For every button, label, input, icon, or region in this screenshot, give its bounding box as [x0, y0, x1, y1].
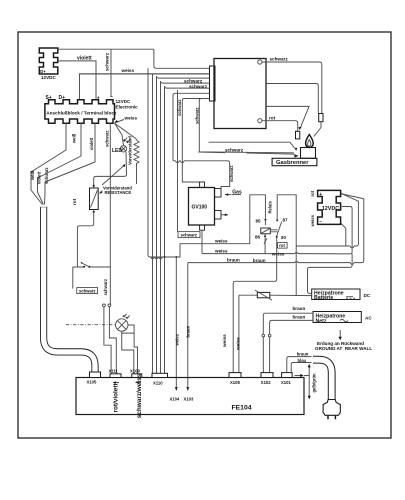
svg-text:RESISTANCE: RESISTANCE — [105, 190, 132, 195]
svg-text:FE104: FE104 — [232, 405, 252, 412]
svg-text:X109: X109 — [130, 369, 140, 374]
svg-text:rot: rot — [310, 190, 315, 196]
svg-text:weiss: weiss — [214, 239, 228, 244]
svg-text:rot: rot — [279, 243, 285, 248]
svg-text:12VDC: 12VDC — [116, 99, 131, 104]
svg-text:violett: violett — [89, 137, 94, 150]
svg-text:–: – — [110, 95, 113, 101]
svg-text:12VDC: 12VDC — [41, 75, 56, 80]
svg-text:rot: rot — [72, 198, 77, 205]
svg-text:schwarz: schwarz — [105, 52, 110, 71]
svg-text:S+: S+ — [46, 95, 52, 101]
svg-text:weiss: weiss — [124, 116, 138, 121]
svg-text:Batterie: Batterie — [314, 295, 333, 301]
svg-text:D+: D+ — [59, 95, 66, 101]
svg-text:weiss: weiss — [236, 337, 241, 351]
svg-text:schwarz: schwarz — [105, 130, 110, 147]
svg-text:85: 85 — [256, 219, 262, 224]
svg-text:X110: X110 — [153, 381, 163, 386]
svg-text:schwarz: schwarz — [44, 167, 49, 184]
svg-text:X101: X101 — [281, 380, 291, 385]
svg-text:X104: X104 — [170, 397, 180, 402]
svg-text:schwarz: schwarz — [270, 57, 289, 62]
svg-text:X102: X102 — [261, 380, 271, 385]
svg-text:–: – — [319, 219, 322, 225]
svg-text:87: 87 — [283, 218, 289, 223]
svg-text:X105: X105 — [87, 380, 97, 385]
svg-text:X108: X108 — [230, 380, 240, 385]
svg-text:Netz: Netz — [316, 318, 327, 324]
svg-text:Electronic: Electronic — [116, 105, 139, 110]
svg-text:schwarz: schwarz — [195, 107, 200, 124]
svg-text:braun: braun — [293, 306, 306, 311]
svg-text:+: + — [319, 192, 322, 198]
svg-text:GROUND AT REAR WALL: GROUND AT REAR WALL — [315, 346, 372, 351]
svg-text:schwarz: schwarz — [189, 84, 208, 89]
svg-text:schwarz: schwarz — [181, 233, 198, 238]
svg-text:braun: braun — [297, 352, 309, 357]
svg-text:Gasbrenner: Gasbrenner — [276, 160, 309, 166]
svg-text:violett: violett — [37, 171, 42, 184]
svg-text:rot/violett: rot/violett — [113, 383, 120, 413]
svg-text:weiss: weiss — [214, 249, 228, 254]
svg-text:weiss: weiss — [310, 214, 315, 227]
svg-text:X103: X103 — [184, 397, 194, 402]
svg-text:GV100: GV100 — [192, 205, 208, 211]
svg-text:weiß: weiß — [30, 170, 35, 181]
svg-text:AC: AC — [365, 315, 372, 320]
svg-text:D+: D+ — [40, 69, 46, 74]
svg-text:Vorwiderstand: Vorwiderstand — [128, 136, 133, 165]
svg-text:weiß: weiß — [72, 133, 77, 144]
svg-text:schwarz: schwarz — [103, 279, 108, 296]
svg-text:DC: DC — [364, 293, 371, 298]
svg-text:Relais: Relais — [268, 200, 273, 213]
svg-text:LED: LED — [112, 148, 122, 154]
svg-text:+: + — [97, 95, 100, 101]
svg-text:braun: braun — [227, 258, 240, 263]
svg-text:Anschlußblock / Terminal block: Anschlußblock / Terminal block — [46, 110, 117, 115]
svg-text:86: 86 — [255, 235, 261, 240]
svg-text:weiss: weiss — [175, 333, 180, 346]
svg-text:braun: braun — [293, 314, 306, 319]
svg-text:weiss: weiss — [222, 334, 227, 348]
svg-text:gelb/grün: gelb/grün — [312, 373, 317, 393]
svg-text:rot: rot — [269, 115, 276, 120]
svg-text:weiss: weiss — [271, 252, 285, 257]
svg-text:schwarz: schwarz — [225, 147, 244, 152]
svg-text:weiss: weiss — [121, 68, 135, 73]
svg-text:12VDC: 12VDC — [322, 206, 339, 212]
svg-text:braun: braun — [186, 325, 191, 337]
svg-text:schwarz/weiss: schwarz/weiss — [136, 373, 143, 418]
svg-text:blau: blau — [298, 358, 307, 363]
svg-text:braun: braun — [253, 258, 266, 263]
svg-text:X111: X111 — [109, 369, 119, 374]
svg-text:30: 30 — [281, 235, 287, 240]
svg-text:schwarz: schwarz — [184, 78, 203, 83]
svg-text:schwarz: schwarz — [229, 165, 234, 182]
svg-text:violett: violett — [77, 56, 92, 62]
svg-text:schwarz: schwarz — [79, 288, 96, 293]
